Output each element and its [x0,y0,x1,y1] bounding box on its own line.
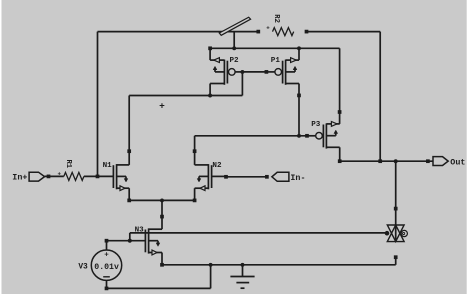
pin dot N2 drain [193,149,197,153]
pin dot triac bottom [394,255,398,259]
terminal In+ [12,172,44,182]
junction triac-gate tap on V3 wire [128,239,132,243]
svg-text:In+: In+ [12,173,27,183]
svg-text:N2: N2 [212,162,222,170]
transistor P1 [271,57,299,85]
terminal In- [272,172,306,183]
svg-text:N3: N3 [135,227,145,235]
junction P2 gate node [240,70,244,74]
pin dot triac gate (left) [385,231,390,236]
pin dot V3 plus [105,239,109,243]
transistor P2 [210,57,239,85]
junction right vertical on output row [378,159,382,163]
wire V3 plus to N3 gate [107,240,146,242]
junction bottom rail joins source row [209,263,213,267]
junction triac branch on output row [394,159,398,163]
terminal Out [433,157,465,168]
svg-text:+: + [266,25,270,32]
pin dot Out terminal [426,159,430,163]
pin dot P3 drain on output row [338,159,342,163]
pin dot N3 source [160,263,164,267]
svg-text:0.01v: 0.01v [94,263,119,272]
svg-text:V3: V3 [78,263,88,272]
wire P2 gate to P1 gate [242,71,266,73]
resistor R1 [58,159,84,180]
wire N2 drain up and right to P3 gate [195,136,307,165]
wire N3 source row to triac bottom [162,257,396,265]
wire N3 drain stub up [161,217,163,230]
wire tail row between N1 and N2 sources [129,199,194,201]
wire gate-drain tie drop of P2/P1 gates [241,72,243,96]
transistor N2 [195,162,222,190]
pin dot R2 left [256,30,260,34]
wire N1 source down to tail row [128,188,130,200]
svg-text:+: + [159,100,165,111]
junction P1 drain joins P3 gate wire [297,134,301,138]
wire left vertical from top rail down to In+ row [97,32,99,177]
pin dot P3 gate [305,134,309,138]
junction P2 drain on mirror row [208,94,212,98]
junction tail row centre [160,198,164,202]
pin dot P3 source [338,110,342,114]
wire VDD rail (P2/P1 sources) with drop to P3 source [210,48,340,112]
node plus marker on mirror row [159,100,165,111]
pin dot N2 gate [224,175,228,179]
svg-text:P2: P2 [230,57,240,65]
wire P1 drain down to second-stage node [298,84,300,136]
wire switch tap from top rail down to VDD rail [233,32,235,49]
wire right vertical from top rail down to output row [379,32,381,162]
P3 gate lead [307,135,316,137]
svg-text:P3: P3 [311,121,321,129]
resistor R2 [266,14,293,35]
wire P2 drain down to mirror row [209,84,211,96]
triac (two overlapping triangles) with indicator bubble [387,225,407,242]
P2 gate lead [235,71,242,73]
pin dot P1 gate [265,70,269,74]
wire P3 source up stub [339,112,341,124]
pin dot N2 source on tail row [193,199,197,203]
pin dot triac top [394,207,398,211]
wire P2 source up to VDD rail [209,48,211,60]
pin dot N3 drain [160,215,164,219]
pin dot N1 source on tail row [127,199,131,203]
svg-text:N1: N1 [103,162,113,170]
wire N3 source down to source row [161,253,163,265]
junction P1 source on VDD rail [297,46,301,50]
wire output row to Out terminal [340,160,433,162]
wire output row down to triac top [395,161,397,225]
pin dot R2 right [305,30,309,34]
wire N3 gate tap up and right to triac gate (crosses N3 bars) [130,233,387,241]
wire bottom rail from V3 minus up to source row [107,265,211,289]
svg-text:In-: In- [290,173,305,183]
pin dot N1 drain [127,149,131,153]
ground [230,265,254,288]
pin dot In+ terminal [47,175,51,179]
svg-text:P1: P1 [271,57,281,65]
svg-text:R1: R1 [64,159,72,168]
transistor P3 [311,121,340,148]
junction ground tap [241,263,245,267]
voltage source V3 [78,241,121,289]
pin dot P2 source on VDD rail [208,46,212,50]
wire In+ row: terminal to R1 to N1 gate [45,175,114,177]
pin dot In- terminal [265,175,269,179]
wire N1 drain up to mirror node row [128,96,130,165]
wire mirror node row (N1 drain to P2 drain and gates) [129,95,242,97]
wire N2 gate to In- terminal [212,175,267,177]
wire top rail from left vertical to right vertical (through switch and R2) [98,31,381,33]
transistor N1 [103,162,130,190]
svg-text:+: + [58,170,62,177]
svg-text:R2: R2 [272,14,280,23]
svg-text:+: + [104,252,109,260]
pin dot V3 minus [105,287,109,291]
junction switch tap on VDD rail [232,46,236,50]
wire through triac centre [395,225,397,242]
P1 gate lead [266,71,275,73]
wire P1 source up to VDD rail [298,48,300,60]
switch lever on top rail [219,17,250,35]
wire N2 source down to tail row [194,188,196,200]
junction left vertical on In+ row [96,175,100,179]
wire P3 drain down to output row [339,147,341,161]
pin dot P1 drain corner [297,94,301,98]
transistor N3 [135,227,162,255]
svg-text:Out: Out [450,157,465,167]
wire tail drop to N3 drain [161,200,163,216]
